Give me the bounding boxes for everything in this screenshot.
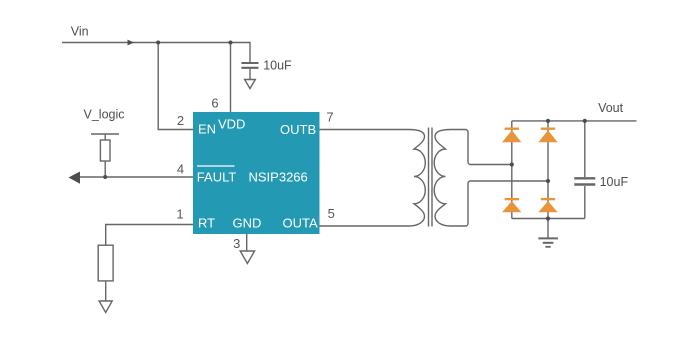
svg-text:Vout: Vout — [598, 101, 624, 115]
svg-text:7: 7 — [326, 110, 333, 125]
svg-text:FAULT: FAULT — [197, 170, 237, 185]
svg-text:3: 3 — [233, 236, 240, 251]
svg-text:10uF: 10uF — [600, 175, 629, 189]
svg-text:V_logic: V_logic — [84, 108, 125, 122]
svg-text:GND: GND — [233, 215, 262, 230]
svg-text:1: 1 — [176, 207, 183, 222]
svg-text:4: 4 — [177, 162, 184, 177]
svg-text:RT: RT — [198, 215, 215, 230]
svg-text:OUTA: OUTA — [283, 215, 318, 230]
svg-text:OUTB: OUTB — [280, 122, 316, 137]
svg-text:Vin: Vin — [71, 25, 89, 39]
svg-text:VDD: VDD — [218, 117, 245, 132]
svg-text:NSIP3266: NSIP3266 — [249, 170, 308, 185]
svg-text:5: 5 — [328, 206, 335, 221]
svg-text:10uF: 10uF — [263, 59, 292, 73]
svg-text:6: 6 — [211, 96, 218, 111]
svg-text:EN: EN — [198, 122, 216, 137]
svg-text:2: 2 — [177, 113, 184, 128]
